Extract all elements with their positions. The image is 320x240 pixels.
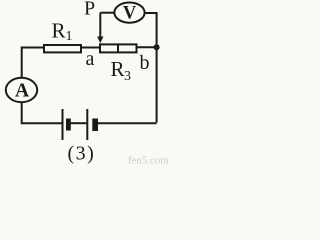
svg-text:3: 3: [124, 69, 131, 84]
svg-text:a: a: [86, 48, 95, 70]
svg-text:V: V: [123, 3, 137, 23]
svg-text:fen5.com: fen5.com: [128, 154, 169, 166]
svg-text:R: R: [52, 19, 66, 43]
svg-text:(3): (3): [68, 143, 96, 165]
svg-text:P: P: [84, 0, 95, 20]
svg-text:A: A: [15, 80, 29, 101]
svg-text:1: 1: [66, 29, 73, 44]
svg-text:b: b: [140, 52, 150, 74]
svg-text:R: R: [111, 57, 125, 81]
